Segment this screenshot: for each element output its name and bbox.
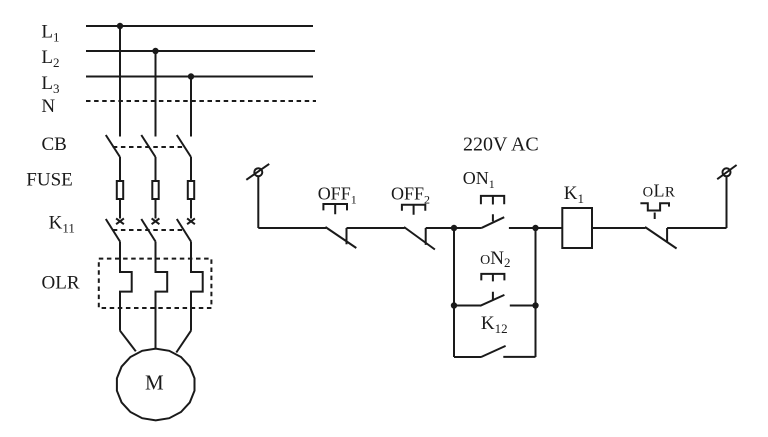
contact K11 pole 3 blade: [177, 219, 191, 242]
wire OLR to right terminal: [667, 227, 726, 229]
wire K12 right lead: [503, 356, 535, 358]
overload relay OLR heater 2: [156, 242, 168, 349]
node junction L2: [152, 48, 158, 54]
contact OLR blade: [645, 227, 677, 249]
svg-text:L3: L3: [41, 73, 59, 96]
wire L3 drop: [190, 77, 192, 137]
wire right terminal drop: [726, 176, 728, 228]
pushbutton OFF1 blade: [325, 227, 356, 248]
contact K11 pole 1 x-mark: [116, 218, 124, 224]
svg-text:OFF1: OFF1: [318, 184, 357, 207]
svg-text:L2: L2: [41, 47, 59, 70]
contact K11 pole 2 x-mark: [152, 218, 160, 224]
wire ON1 to K1: [509, 227, 562, 229]
svg-text:L1: L1: [41, 22, 59, 45]
motor M: [117, 349, 195, 421]
bus L3: [86, 76, 313, 78]
svg-text:ON2: ON2: [480, 248, 510, 270]
contact K11 pole 1 blade: [106, 219, 120, 242]
breaker CB pole 2: [141, 135, 155, 157]
wire fuse to K11 pole 1: [119, 200, 121, 219]
svg-text:K11: K11: [49, 212, 75, 235]
wire rail to OFF1: [258, 227, 326, 229]
overload relay OLR heater 1: [120, 242, 132, 331]
breaker CB tie bar (dashed): [113, 146, 185, 148]
node junction L3: [188, 73, 194, 79]
wire branch right vertical: [535, 228, 537, 357]
svg-text:K1: K1: [564, 183, 584, 206]
fuse F3: [188, 181, 194, 199]
contact K11 pole 3 x-mark: [187, 218, 195, 224]
wire CB to fuse pole 3: [190, 157, 192, 180]
pushbutton ON2 blade: [480, 295, 504, 306]
wire CB to fuse pole 1: [119, 157, 121, 180]
contact K11 tie bar (dashed): [113, 229, 185, 231]
svg-text:K12: K12: [481, 313, 508, 336]
bus N (dashed): [86, 100, 316, 102]
node B junction dot: [532, 225, 538, 231]
wire fuse to K11 pole 3: [190, 200, 192, 219]
fuse F2: [152, 181, 158, 199]
wire OFF2 to ON1: [426, 227, 482, 229]
wire L2 drop: [155, 51, 157, 137]
svg-text:220V AC: 220V AC: [463, 133, 539, 155]
coil K1: [562, 208, 592, 248]
pushbutton OFF2 blade: [404, 227, 435, 250]
overload relay OLR box (dashed): [99, 259, 212, 308]
bus L1: [86, 25, 313, 27]
pushbutton ON2 actuator: [481, 274, 504, 300]
wire motor lead left: [120, 331, 136, 352]
wire branch left vertical: [453, 228, 455, 357]
node C junction dot: [451, 302, 457, 308]
terminal left: [254, 168, 262, 176]
svg-text:OLR: OLR: [643, 181, 676, 201]
wire motor lead right: [176, 331, 191, 353]
wire K1 to OLR contact: [592, 227, 645, 229]
node D junction dot: [532, 302, 538, 308]
pushbutton ON1 blade: [482, 217, 504, 228]
svg-text:CB: CB: [42, 134, 67, 155]
node A junction dot: [451, 225, 457, 231]
svg-text:ON1: ON1: [463, 168, 495, 191]
wire left terminal drop: [257, 176, 259, 228]
wire OFF1 to OFF2: [347, 227, 405, 229]
overload relay OLR heater 3: [191, 242, 203, 331]
svg-text:OLR: OLR: [42, 272, 80, 293]
contact K12 blade: [481, 346, 505, 357]
pushbutton OFF2 contact tick: [425, 228, 427, 245]
wire L1 drop: [119, 26, 121, 137]
bus L2: [86, 50, 315, 52]
pushbutton OFF1 actuator: [323, 204, 347, 214]
pushbutton ON1 actuator: [481, 196, 504, 222]
node junction L1: [117, 23, 123, 29]
svg-text:OFF2: OFF2: [391, 183, 430, 206]
wire K12 left lead: [454, 356, 482, 358]
wire fuse to K11 pole 2: [155, 200, 157, 219]
svg-text:M: M: [145, 370, 164, 394]
wire ON2 right lead: [510, 305, 536, 307]
wire ON2 left lead: [454, 305, 481, 307]
pushbutton OFF2 actuator: [402, 205, 425, 215]
terminal right: [723, 168, 731, 176]
contact OLR tick: [666, 228, 668, 242]
svg-text:FUSE: FUSE: [26, 169, 72, 190]
breaker CB pole 3: [177, 135, 191, 157]
overload relay OLR trip symbol: [640, 203, 669, 219]
pushbutton OFF1 contact tick: [346, 228, 348, 244]
breaker CB pole 1: [106, 135, 120, 157]
fuse F1: [117, 181, 123, 199]
wire CB to fuse pole 2: [155, 157, 157, 180]
svg-text:N: N: [41, 96, 55, 117]
contact K11 pole 2 blade: [141, 219, 155, 242]
